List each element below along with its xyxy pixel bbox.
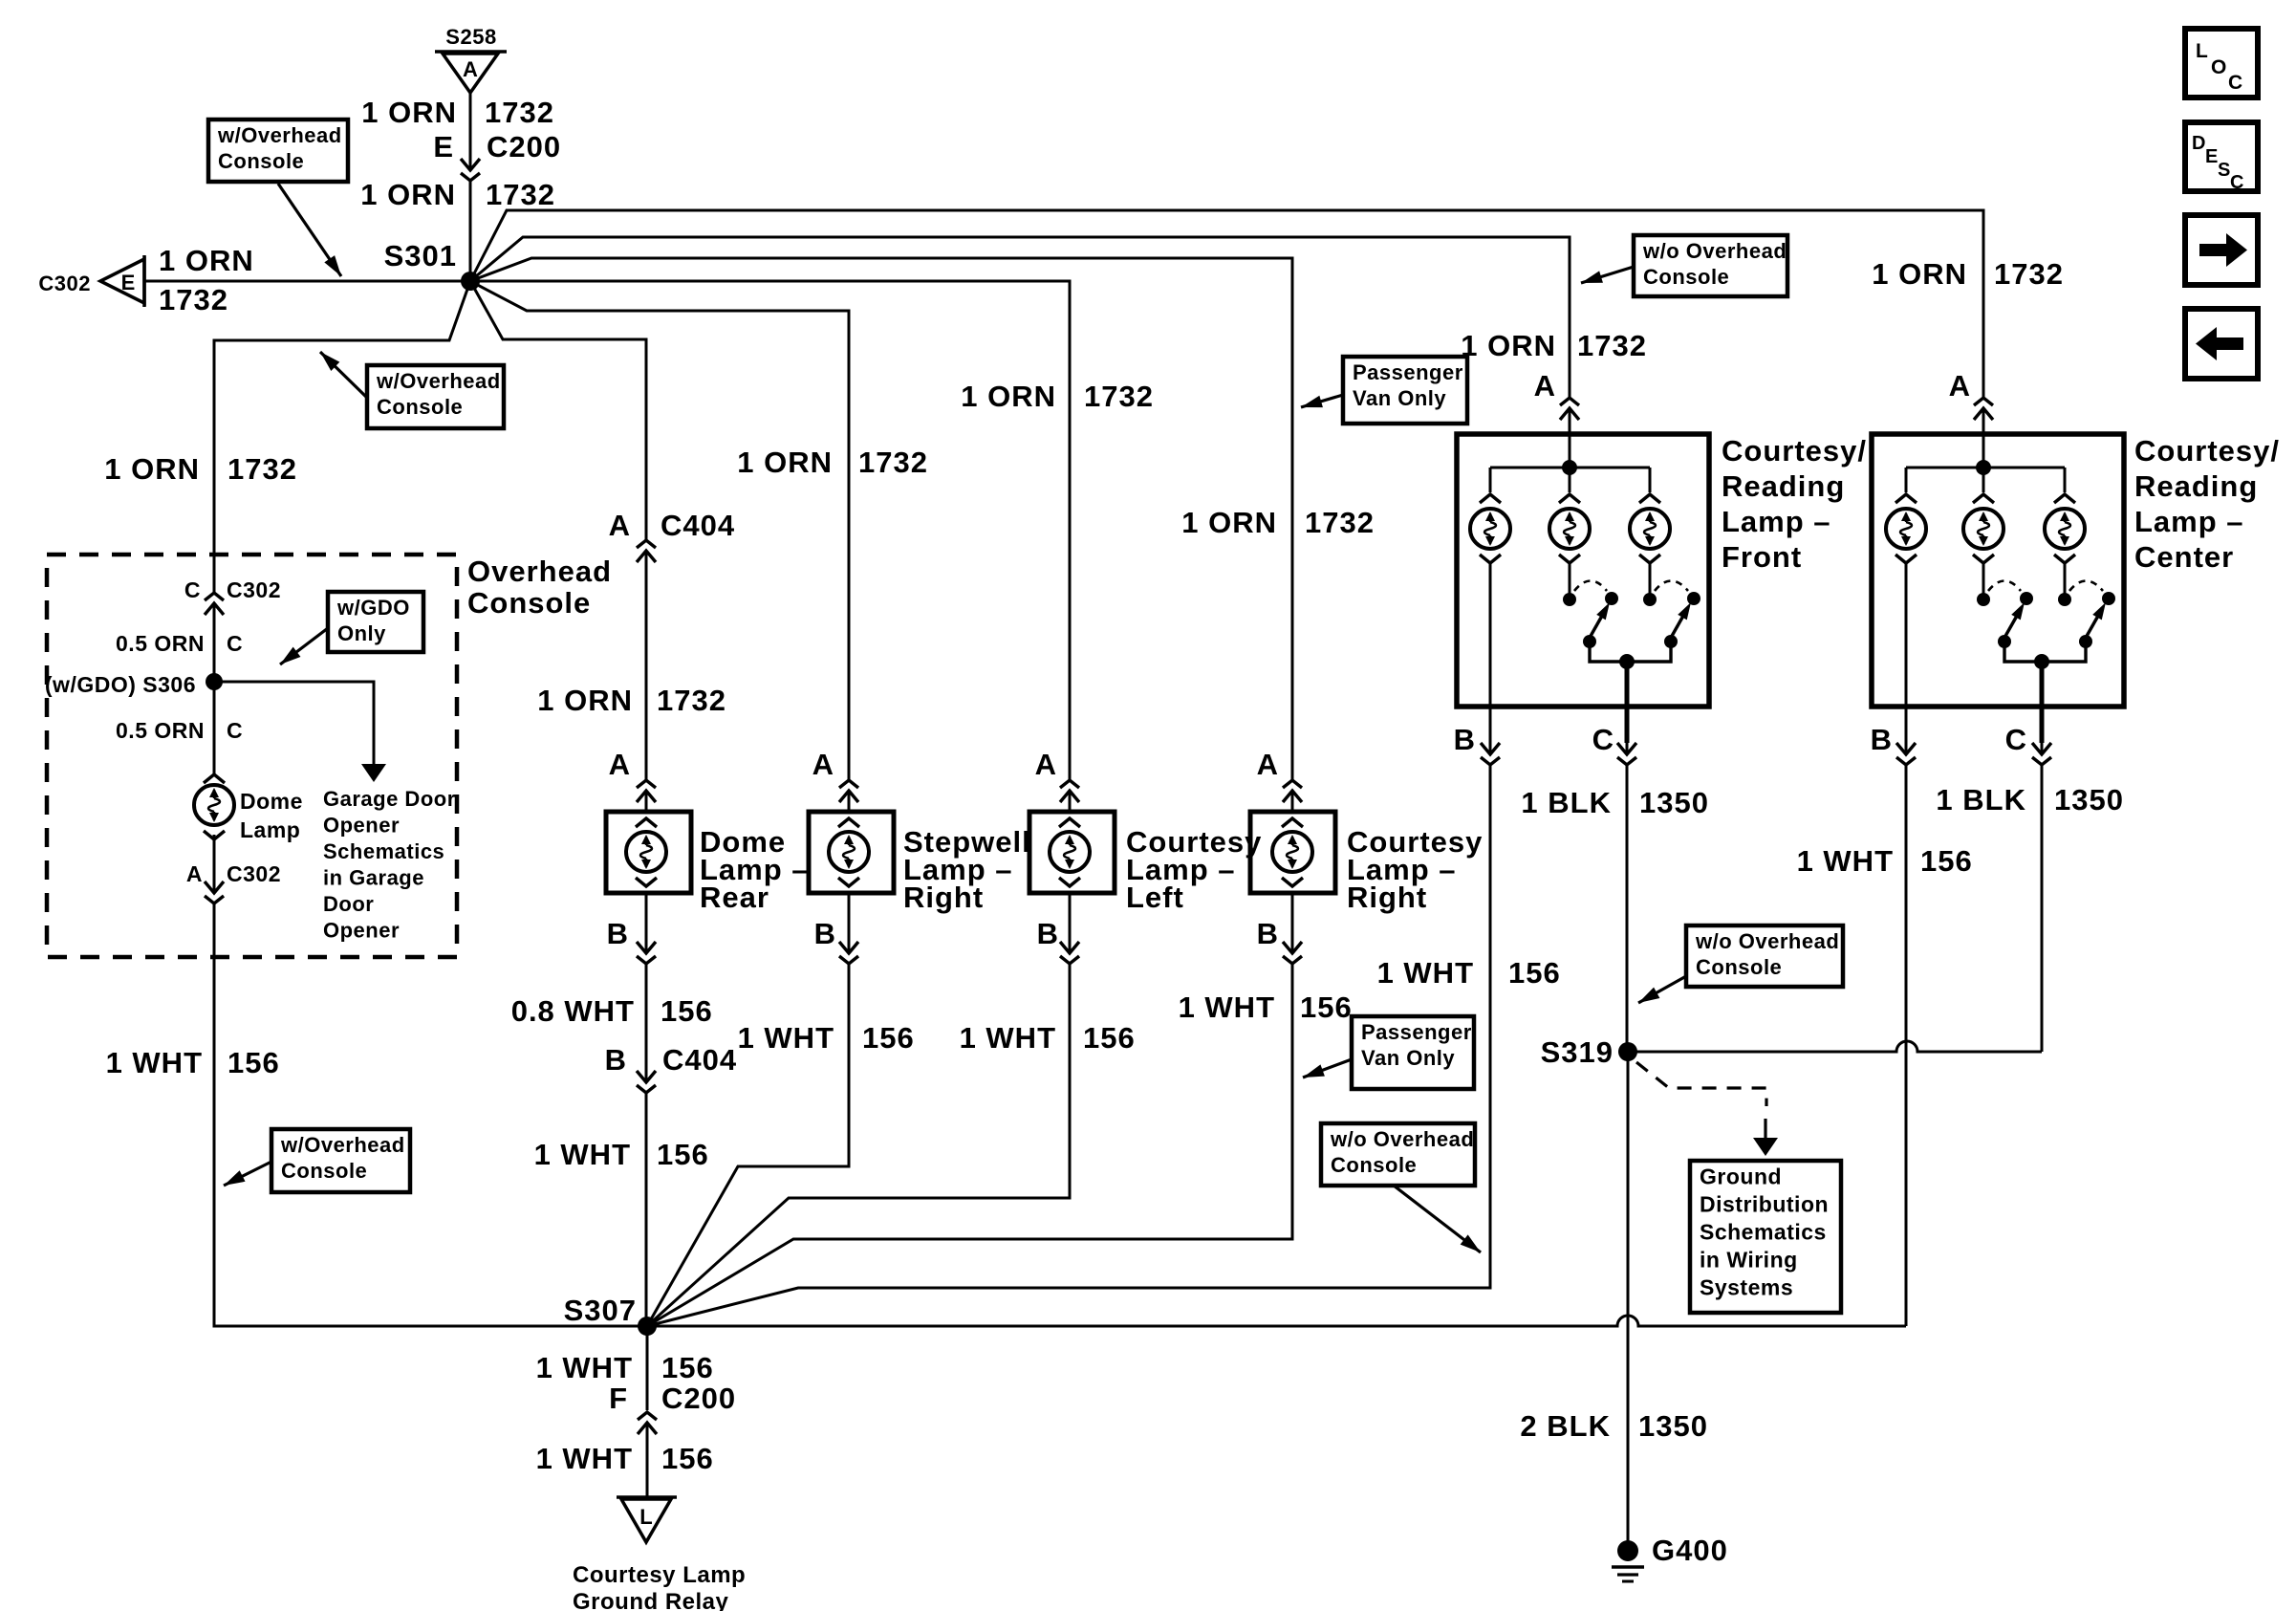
splice S307 (638, 1317, 657, 1336)
wire front switch common to pin C (1625, 662, 1630, 743)
arrow from upper Passenger Van Only callout (1299, 395, 1343, 413)
front lamp bus wire (1490, 467, 1650, 469)
courtesy/reading lamp front box (1457, 434, 1709, 707)
splice S301 (461, 272, 480, 291)
svg-text:Front: Front (1722, 540, 1802, 574)
callout w/o Overhead Console (top) (1634, 235, 1787, 296)
svg-text:A: A (609, 509, 631, 542)
arrow from second w/Overhead Console callout (315, 347, 367, 398)
svg-text:Schematics: Schematics (1700, 1220, 1827, 1245)
connector pin A chevron (courtesy right) (1291, 791, 1294, 810)
legend icon DESC (2185, 122, 2258, 193)
wire dome lamp to C302 pin A (213, 835, 216, 883)
label 1 WHT 156 (dome rear out) (534, 1138, 709, 1171)
arrow from top w/o Overhead Console callout (1579, 267, 1634, 289)
svg-text:w/o Overhead: w/o Overhead (1642, 239, 1787, 263)
label 1 BLK 1350 (front C) (1521, 786, 1709, 819)
svg-text:1 ORN: 1 ORN (1872, 257, 1967, 291)
svg-text:Console: Console (377, 395, 463, 419)
label 0.5 ORN C (below S306) (116, 718, 243, 743)
connector pin A chevron (dome rear) (645, 791, 648, 810)
svg-text:1732: 1732 (1305, 506, 1375, 539)
svg-text:1 WHT: 1 WHT (1377, 956, 1474, 990)
svg-text:C404: C404 (661, 509, 735, 542)
arrow from mid w/o Overhead Console callout (1394, 1186, 1484, 1257)
svg-text:1 WHT: 1 WHT (960, 1021, 1056, 1055)
svg-text:156: 156 (1920, 844, 1973, 878)
wire center lamp2 to switch1 (1982, 563, 1985, 594)
splice front switch common (1619, 654, 1635, 669)
connector pin B chevron (stepwell) (848, 940, 851, 953)
svg-text:0.8 WHT: 0.8 WHT (511, 994, 635, 1028)
svg-text:C302: C302 (227, 861, 281, 886)
svg-text:Passenger: Passenger (1361, 1020, 1472, 1044)
svg-text:A: A (1035, 748, 1057, 781)
label 1 WHT 156 (stepwell out) (738, 1021, 915, 1055)
svg-text:156: 156 (862, 1021, 915, 1055)
dashed wire S319 to ground distribution note (1636, 1062, 1766, 1106)
wire courtesy right B to S307 (1 WHT) (647, 964, 1292, 1326)
svg-text:C: C (2230, 172, 2243, 193)
svg-text:in Garage: in Garage (323, 866, 424, 890)
wire S301 to courtesy lamp left feed (470, 281, 1070, 780)
wire S306 to dome lamp (0.5 ORN) (213, 682, 216, 773)
connector F C200 (609, 1382, 736, 1442)
svg-text:1732: 1732 (227, 452, 297, 486)
wire front B to S307 (1 WHT) (647, 765, 1490, 1326)
callout w/Overhead Console second (367, 365, 504, 428)
svg-text:E: E (433, 130, 454, 163)
svg-text:Courtesy/: Courtesy/ (2134, 434, 2280, 468)
wire C200 to courtesy lamp ground relay (1 WHT) (646, 1423, 649, 1497)
svg-text:C: C (2228, 72, 2242, 94)
svg-text:1 WHT: 1 WHT (738, 1021, 834, 1055)
svg-text:Opener: Opener (323, 814, 400, 838)
svg-text:w/Overhead: w/Overhead (280, 1133, 405, 1157)
wire S258 to C200 (1 ORN 1732) (469, 93, 472, 160)
arrow from S319 w/o Overhead Console callout (1635, 976, 1686, 1009)
stepwell lamp right (809, 812, 894, 893)
arrow from top-left w/Overhead Console callout (278, 184, 346, 280)
svg-text:w/Overhead: w/Overhead (376, 369, 501, 393)
label Courtesy Lamp Ground Relay (573, 1562, 746, 1611)
svg-text:1 ORN: 1 ORN (537, 684, 633, 717)
svg-text:156: 156 (661, 1442, 714, 1475)
wire C302 to S301 (144, 280, 470, 283)
label Overhead Console (467, 555, 612, 620)
connector pin A chevron (stepwell) (848, 791, 851, 810)
arrow into ground distribution note (1764, 1119, 1766, 1140)
label 1 ORN 1732 (stepwell) (737, 446, 928, 479)
svg-text:C: C (227, 631, 243, 656)
svg-text:1732: 1732 (485, 96, 554, 129)
wire C302 to S306 (0.5 ORN) (213, 603, 216, 682)
svg-text:S307: S307 (564, 1294, 637, 1327)
center reading lamp 1 (1886, 468, 1926, 563)
svg-text:L: L (2196, 40, 2208, 62)
svg-text:Distribution: Distribution (1700, 1192, 1829, 1217)
wire front lamp2 to switch1 (1569, 563, 1571, 594)
svg-text:Van Only: Van Only (1361, 1046, 1455, 1070)
label 1 WHT 156 (below C200) (536, 1442, 714, 1475)
svg-text:1 WHT: 1 WHT (536, 1442, 633, 1475)
svg-text:S301: S301 (384, 239, 457, 272)
arrow from w/GDO Only callout to S306 (276, 628, 328, 669)
wire S307 ground rail with hop over S319 wire (214, 1316, 1906, 1326)
svg-text:Overhead: Overhead (467, 555, 612, 588)
svg-text:F: F (609, 1382, 628, 1415)
splice S319 (1618, 1042, 1637, 1061)
wire courtesy left B to S307 (1 WHT) (647, 964, 1070, 1326)
svg-text:Right: Right (1347, 881, 1427, 914)
switch 1 (center reading lamp) (1977, 581, 2042, 663)
label Dome Lamp (240, 789, 303, 842)
svg-text:Only: Only (337, 621, 386, 645)
connector pin A chevron (front) (1569, 408, 1571, 427)
svg-text:Console: Console (281, 1159, 367, 1183)
svg-text:Door: Door (323, 892, 374, 916)
label 1 WHT 156 (courtesy left out) (960, 1021, 1136, 1055)
dashed outline Overhead Console (47, 555, 457, 957)
svg-text:1732: 1732 (486, 178, 555, 211)
svg-text:O: O (2211, 56, 2226, 78)
label 1 WHT 156 (courtesy right out) (1179, 991, 1353, 1024)
svg-text:Van Only: Van Only (1353, 386, 1446, 410)
front reading lamp 3 (1630, 468, 1670, 563)
label 1 WHT 156 (center B) (1797, 844, 1973, 878)
note garage door opener schematics (323, 787, 456, 943)
svg-text:156: 156 (657, 1138, 709, 1171)
label 1 WHT 156 (front B) (1377, 956, 1561, 990)
svg-text:Schematics: Schematics (323, 839, 444, 863)
connector pin B chevron (front) (1489, 741, 1492, 754)
svg-text:w/GDO: w/GDO (336, 596, 410, 620)
svg-text:C: C (184, 577, 201, 602)
svg-text:B: B (1037, 917, 1059, 950)
switch 2 (center reading lamp) (2042, 581, 2115, 663)
label Dome Lamp - Rear (700, 825, 810, 914)
label 0.8 WHT 156 (511, 994, 713, 1028)
connector C C302 (overhead console) (184, 577, 281, 622)
svg-text:Left: Left (1126, 881, 1184, 914)
courtesy lamp left (1029, 812, 1115, 893)
svg-text:1 ORN: 1 ORN (961, 380, 1056, 413)
wire dome rear B to C404 (0.8 WHT) (645, 964, 648, 1071)
connector pin B chevron (center) (1905, 741, 1908, 754)
label 1 ORN 1732 above C200 (361, 96, 554, 129)
ground G400 (1612, 1540, 1644, 1581)
connector pin C chevron (center) (2041, 741, 2044, 754)
connector triangle L courtesy lamp ground relay (617, 1497, 677, 1542)
svg-text:1 WHT: 1 WHT (1797, 844, 1894, 878)
wire center lamp1 to pin B (1905, 563, 1908, 743)
svg-text:1 BLK: 1 BLK (1936, 783, 2026, 816)
legend icon LOC (2185, 29, 2258, 98)
svg-text:156: 156 (1508, 956, 1561, 990)
svg-text:Passenger: Passenger (1353, 360, 1463, 384)
svg-text:C302: C302 (38, 272, 91, 295)
switch 2 (front reading lamp) (1627, 581, 1700, 663)
label 1 WHT 156 (left drop) (106, 1046, 280, 1079)
svg-text:1350: 1350 (2054, 783, 2124, 816)
wire S307 to F C200 (1 WHT) (646, 1326, 649, 1410)
callout w/o Overhead Console (mid) (1321, 1123, 1475, 1186)
connector A C404 (609, 509, 736, 570)
svg-text:2 BLK: 2 BLK (1520, 1409, 1611, 1443)
svg-text:Center: Center (2134, 540, 2234, 574)
front reading lamp 2 (1549, 468, 1590, 563)
svg-text:1 ORN: 1 ORN (159, 244, 254, 277)
dome lamp rear (606, 812, 691, 893)
label Courtesy Lamp - Left (1126, 825, 1262, 914)
center lamp bus wire (1906, 467, 2065, 469)
svg-text:Console: Console (1331, 1153, 1417, 1177)
wire S319 to G400 (2 BLK) (1627, 1052, 1630, 1542)
svg-text:w/o Overhead: w/o Overhead (1330, 1127, 1474, 1151)
svg-text:156: 156 (661, 1351, 714, 1384)
callout w/Overhead Console top-left (208, 120, 348, 182)
connector E C200 (433, 130, 561, 181)
svg-text:Systems: Systems (1700, 1275, 1793, 1300)
wire center switch common to pin C (2040, 662, 2045, 743)
wire S301 to courtesy/reading lamp center feed (470, 210, 1983, 398)
svg-text:Console: Console (1696, 955, 1782, 979)
svg-text:Reading: Reading (1722, 469, 1845, 503)
svg-text:156: 156 (1300, 991, 1353, 1024)
splice inside center lamp (1976, 460, 1991, 475)
svg-text:1 WHT: 1 WHT (536, 1351, 633, 1384)
svg-text:E: E (2205, 146, 2218, 167)
wire S301 to overhead console left drop (214, 281, 470, 594)
svg-text:1 WHT: 1 WHT (1179, 991, 1275, 1024)
svg-text:Console: Console (1643, 265, 1729, 289)
label 1 ORN 1732 on C302 wire (159, 244, 254, 316)
svg-text:C: C (227, 718, 243, 743)
svg-text:1 ORN: 1 ORN (104, 452, 200, 486)
svg-text:Lamp –: Lamp – (2134, 505, 2244, 538)
svg-text:156: 156 (1083, 1021, 1136, 1055)
svg-text:1 ORN: 1 ORN (1181, 506, 1277, 539)
svg-text:(w/GDO) S306: (w/GDO) S306 (45, 672, 196, 697)
svg-text:156: 156 (227, 1046, 280, 1079)
svg-text:Console: Console (218, 149, 304, 173)
svg-text:1 ORN: 1 ORN (360, 178, 456, 211)
wire A C302 down left side to S307 rail (1 WHT) (214, 903, 638, 1326)
callout Passenger Van Only (upper) (1343, 357, 1467, 424)
svg-text:1732: 1732 (657, 684, 726, 717)
label 1 BLK 1350 (center C) (1936, 783, 2124, 816)
svg-text:A: A (1534, 369, 1556, 403)
arrow from lower-left w/Overhead Console callout (221, 1162, 271, 1191)
svg-text:Opener: Opener (323, 919, 400, 943)
svg-text:S319: S319 (1541, 1035, 1614, 1069)
svg-text:0.5 ORN: 0.5 ORN (116, 718, 205, 743)
svg-text:A: A (186, 861, 203, 886)
wire C404 to S307 (1 WHT) (645, 1093, 648, 1326)
label 1 ORN 1732 (dome rear) (537, 684, 726, 717)
svg-text:C200: C200 (661, 1382, 736, 1415)
callout w/GDO Only (328, 592, 423, 652)
svg-text:0.5 ORN: 0.5 ORN (116, 631, 205, 656)
legend icon prev-page arrow (2185, 309, 2258, 379)
svg-text:A: A (1949, 369, 1971, 403)
svg-text:Courtesy/: Courtesy/ (1722, 434, 1867, 468)
svg-text:S: S (2218, 160, 2230, 181)
note ground distribution schematics (1690, 1161, 1841, 1313)
connector pin B chevron (courtesy left) (1069, 940, 1072, 953)
svg-text:D: D (2192, 133, 2205, 154)
svg-text:in Wiring: in Wiring (1700, 1248, 1798, 1273)
svg-text:1732: 1732 (1994, 257, 2064, 291)
svg-text:B: B (607, 917, 629, 950)
svg-text:1732: 1732 (1084, 380, 1154, 413)
label 1 WHT 156 (above C200) (536, 1351, 714, 1384)
callout Passenger Van Only (lower) (1352, 1016, 1474, 1089)
label 1 ORN 1732 (courtesy left) (961, 380, 1154, 413)
label 1 ORN 1732 (courtesy right) (1181, 506, 1375, 539)
svg-text:Ground: Ground (1700, 1165, 1782, 1189)
svg-text:1 ORN: 1 ORN (737, 446, 833, 479)
connector triangle C302 pin E (38, 255, 144, 307)
svg-text:Lamp: Lamp (240, 817, 300, 842)
switch 1 (front reading lamp) (1563, 581, 1627, 663)
connector pin B chevron (dome rear) (645, 940, 648, 953)
svg-text:1732: 1732 (858, 446, 928, 479)
wire front C to S319 (1 BLK) (1626, 765, 1629, 1052)
svg-text:1 WHT: 1 WHT (106, 1046, 203, 1079)
svg-text:Dome: Dome (240, 789, 303, 814)
callout w/Overhead Console lower-left (271, 1129, 410, 1192)
svg-text:1 ORN: 1 ORN (1461, 329, 1556, 362)
wire front lamp3 to switch2 (1649, 563, 1652, 594)
wire stepwell B to S307 (1 WHT) (647, 964, 849, 1326)
svg-text:w/Overhead: w/Overhead (217, 123, 342, 147)
svg-text:Rear: Rear (700, 881, 769, 914)
splice center switch common (2034, 654, 2049, 669)
connector pin B chevron (courtesy right) (1291, 940, 1294, 953)
wire S301 to courtesy/reading lamp front feed (470, 237, 1570, 398)
label Stepwell Lamp - Right (903, 825, 1031, 914)
wire C404 to dome lamp rear (1 ORN) (645, 551, 648, 780)
splice inside front lamp (1562, 460, 1577, 475)
svg-text:1732: 1732 (159, 283, 228, 316)
center reading lamp 2 (1963, 468, 2004, 563)
connector A C302 (overhead console out) (186, 861, 281, 903)
legend icon next-page arrow (2185, 215, 2258, 285)
svg-text:Reading: Reading (2134, 469, 2258, 503)
courtesy/reading lamp center box (1872, 434, 2124, 707)
courtesy lamp right (1250, 812, 1335, 893)
svg-text:G400: G400 (1652, 1534, 1728, 1567)
wire S301 to stepwell lamp feed (470, 281, 849, 780)
connector pin A chevron (courtesy left) (1069, 791, 1072, 810)
svg-text:S258: S258 (445, 25, 496, 49)
dome lamp (overhead console) (194, 774, 234, 839)
svg-text:Ground Relay: Ground Relay (573, 1589, 729, 1611)
svg-text:1350: 1350 (1638, 1409, 1708, 1443)
svg-text:C: C (1592, 723, 1614, 756)
svg-text:A: A (1257, 748, 1279, 781)
label Courtesy/Reading Lamp - Front (1722, 434, 1867, 574)
svg-text:L: L (639, 1505, 652, 1529)
wire center lamp3 to switch2 (2064, 563, 2067, 594)
connector pin C chevron (front) (1626, 741, 1629, 754)
connector triangle S258 pin A (435, 25, 507, 93)
svg-text:B: B (605, 1043, 627, 1077)
label 1 ORN 1732 on left drop (104, 452, 297, 486)
splice S306 (w/GDO) (206, 673, 223, 690)
svg-text:C: C (2005, 723, 2027, 756)
wire center C to S319 (1 BLK) with hop over center B wire (2041, 765, 2044, 1052)
svg-text:1 ORN: 1 ORN (361, 96, 457, 129)
svg-text:Courtesy Lamp: Courtesy Lamp (573, 1562, 746, 1588)
arrow from lower Passenger Van Only callout (1301, 1059, 1352, 1083)
wire C200 to S301 (1 ORN 1732) (469, 181, 472, 281)
label 1 ORN 1732 (center feed) (1872, 257, 2064, 291)
callout w/o Overhead Console (at S319) (1686, 925, 1843, 987)
wire center B down to S307 rail (1 WHT) (1905, 765, 1908, 1326)
svg-text:156: 156 (661, 994, 713, 1028)
wire front lamp1 to pin B (1489, 563, 1492, 743)
wire S301 to dome lamp rear feed (470, 281, 646, 541)
label 0.5 ORN C (above S306) (116, 631, 243, 656)
svg-text:A: A (609, 748, 631, 781)
wire S306 to garage door opener (w/GDO) (214, 682, 374, 764)
svg-text:A: A (812, 748, 834, 781)
svg-text:Garage Door: Garage Door (323, 787, 456, 811)
svg-text:Right: Right (903, 881, 984, 914)
svg-text:1 WHT: 1 WHT (534, 1138, 631, 1171)
svg-text:B: B (1257, 917, 1279, 950)
svg-text:C404: C404 (662, 1043, 737, 1077)
svg-text:E: E (121, 271, 136, 294)
label Courtesy Lamp - Right (1347, 825, 1483, 914)
front reading lamp 1 (1470, 468, 1510, 563)
connector B C404 (605, 1043, 738, 1093)
svg-text:B: B (814, 917, 836, 950)
label Courtesy/Reading Lamp - Center (2134, 434, 2280, 574)
svg-text:B: B (1454, 723, 1476, 756)
svg-text:C200: C200 (487, 130, 561, 163)
label 1 ORN 1732 below C200 (360, 178, 555, 211)
connector pin A chevron (center) (1982, 408, 1985, 427)
svg-text:Console: Console (467, 586, 591, 620)
svg-text:B: B (1871, 723, 1893, 756)
svg-text:Lamp –: Lamp – (1722, 505, 1831, 538)
svg-text:1350: 1350 (1639, 786, 1709, 819)
label 2 BLK 1350 (1520, 1409, 1708, 1443)
svg-text:1 BLK: 1 BLK (1521, 786, 1612, 819)
center reading lamp 3 (2045, 468, 2085, 563)
svg-text:w/o Overhead: w/o Overhead (1695, 929, 1839, 953)
label 1 ORN 1732 (front feed) (1461, 329, 1647, 362)
wire S301 to courtesy lamp right feed (470, 258, 1292, 780)
svg-text:1732: 1732 (1577, 329, 1647, 362)
svg-text:C302: C302 (227, 577, 281, 602)
svg-text:A: A (463, 57, 478, 81)
